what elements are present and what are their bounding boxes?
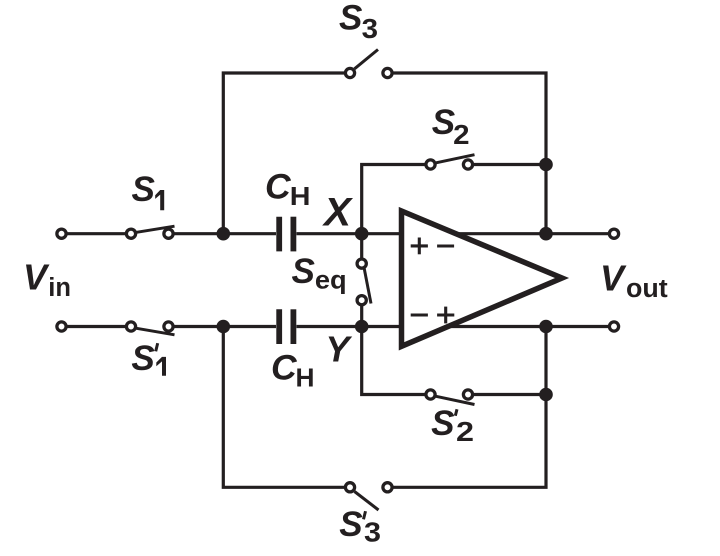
terminal output bottom <box>609 322 618 331</box>
junction node A (top input rail) <box>217 227 231 241</box>
junction bottom output rail <box>539 320 553 334</box>
capacitor CH bottom plates <box>279 309 293 344</box>
wire bottom-left: from node B down and across to switch S3' <box>223 327 344 488</box>
svg-text:S: S <box>432 103 455 142</box>
svg-text:S: S <box>339 505 362 544</box>
junction node Y <box>355 320 369 334</box>
svg-text:S: S <box>292 252 315 291</box>
label S3' <box>339 505 381 548</box>
op-amp plus input mark (top) <box>411 238 428 255</box>
wire S2 row right: from S2 to right vertical junction <box>474 163 546 166</box>
switch S2 contacts and lever <box>426 160 473 169</box>
wire input top: terminal to switch S1 <box>68 232 126 235</box>
wire top-left: from node A up and across to switch S3 <box>223 73 344 234</box>
terminal input top <box>57 229 66 238</box>
switch S1 contacts and lever <box>126 229 173 238</box>
label S_eq <box>292 252 347 294</box>
label CH top <box>265 167 311 212</box>
svg-text:C: C <box>271 348 298 388</box>
junction node X <box>355 227 369 241</box>
switch S_eq contacts and lever <box>357 259 366 305</box>
svg-text:S: S <box>131 339 154 378</box>
wire right vertical: S2 junction down to top output rail <box>544 165 547 234</box>
op-amp U1 triangle <box>402 211 563 346</box>
svg-text:S: S <box>339 0 362 38</box>
wire right vertical: bottom output rail down to S2' row <box>544 327 547 395</box>
wire S2' row right: from S2' to right vertical junction <box>474 393 546 396</box>
label V_in <box>23 257 71 302</box>
svg-text:V: V <box>600 258 627 299</box>
wire input bottom: terminal to switch S1' <box>68 325 126 328</box>
wire S2 row left: from node X up and right to S2 <box>362 165 425 234</box>
label S1' <box>131 339 166 378</box>
op-amp plus input mark (bottom) <box>437 307 454 324</box>
switch S2' contacts and lever <box>426 390 473 399</box>
label S3 <box>339 0 378 44</box>
label node X <box>322 191 354 235</box>
wire S_eq lower stub: S_eq to node Y <box>360 306 363 327</box>
svg-text:3: 3 <box>362 13 378 44</box>
wire X rail: capacitor CH to node X to op-amp and output terminal <box>297 232 609 235</box>
svg-text:H: H <box>296 363 315 393</box>
junction S2' row right <box>539 388 553 402</box>
capacitor CH top plates <box>279 217 293 252</box>
op-amp minus input mark (bottom) <box>411 313 428 316</box>
wire S_eq upper stub: node X to S_eq <box>360 234 363 258</box>
svg-text:Y: Y <box>326 329 353 370</box>
svg-text:H: H <box>290 181 311 211</box>
wire bottom-right vertical: S2' junction down to bottom wire <box>394 395 547 488</box>
op-amp minus input mark (top) <box>437 244 454 247</box>
switch S3 contacts and lever <box>345 68 392 77</box>
svg-text:eq: eq <box>315 265 347 295</box>
junction top output rail <box>539 227 553 241</box>
switch S1' contacts and lever <box>126 322 173 331</box>
junction node B (bottom input rail) <box>217 320 231 334</box>
svg-text:S: S <box>431 404 454 443</box>
svg-text:C: C <box>265 167 292 207</box>
label CH bottom <box>271 348 315 393</box>
svg-text:out: out <box>626 275 668 303</box>
svg-text:S: S <box>132 170 155 209</box>
terminal input bottom <box>57 322 66 331</box>
label S1 <box>132 170 165 210</box>
svg-text:X: X <box>322 191 354 235</box>
label S2' <box>431 404 474 447</box>
wire Y rail: capacitor CH to node Y to op-amp and output terminal <box>297 325 609 328</box>
svg-text:2: 2 <box>453 119 469 150</box>
svg-text:V: V <box>23 257 50 298</box>
label V_out <box>600 258 668 304</box>
junction S2 row right <box>539 158 553 172</box>
svg-text:3: 3 <box>364 517 381 548</box>
svg-text:in: in <box>48 274 71 302</box>
wire S2' row left: from node Y down and right to S2' <box>362 327 425 395</box>
wire X rail: S1 to capacitor CH <box>174 232 276 235</box>
terminal output top <box>609 229 618 238</box>
wire top-right: from S3 to right vertical down to S2 row <box>394 73 547 165</box>
svg-text:2: 2 <box>456 416 474 447</box>
switch S3' contacts and lever <box>345 483 392 492</box>
wire Y rail: S1' to capacitor CH <box>174 325 276 328</box>
label S2 <box>432 103 470 150</box>
